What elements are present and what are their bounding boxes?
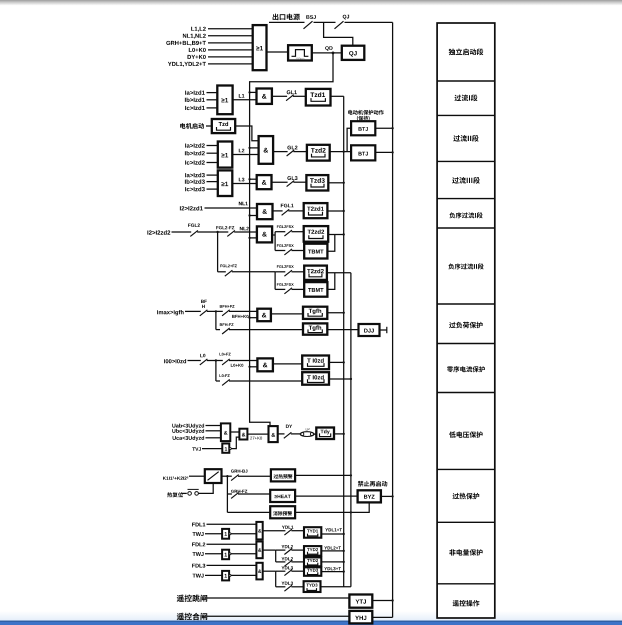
relay YHJ (349, 611, 372, 624)
contact FGL2-FZ (227, 230, 235, 236)
relay YTJ (349, 595, 372, 608)
push button reset (182, 492, 187, 494)
wire BSJ-QJ junction to QJ relay top (324, 22, 353, 45)
AND gate (256, 542, 262, 559)
OR gate U4 box (218, 142, 233, 168)
legend label 负序过流II段 (448, 263, 483, 269)
wire L3 net (232, 183, 256, 185)
wire remote trip to YTJ (207, 597, 350, 599)
contact FGL2FSX third (284, 270, 292, 276)
legend label 零序电流保护 (447, 366, 485, 372)
wire top power rail (269, 21, 305, 23)
wire Tzd1 output to trip bus (331, 95, 344, 97)
wire TI0zd output to trip bus (329, 361, 344, 363)
wire to integrator (189, 475, 205, 477)
wire T2zd2 output to trip bus (328, 234, 344, 236)
wire TYD2b output to trip bus (321, 561, 343, 563)
legend label 过流I段 (455, 95, 478, 102)
wire U15 output / contact DY (278, 433, 285, 435)
input Imax>Igfh (157, 310, 183, 315)
wire U13 output up (231, 437, 239, 449)
time element T2zd2 (304, 226, 329, 242)
wire YHJ output to power bus bottom (372, 616, 392, 618)
wire lower branch / contact BFH-FZ (216, 329, 220, 331)
AND gate U11 (257, 358, 273, 371)
time element Tdy (316, 428, 334, 440)
element thermal alarm box (271, 469, 295, 481)
wire QD vertical drop (250, 53, 333, 426)
wire to Tdy (314, 433, 316, 435)
time element T2zd1 (304, 203, 328, 218)
wire alarm output to hold bus (295, 474, 351, 476)
wire QD stub to U10 (248, 317, 250, 319)
coil symbol oval (300, 432, 314, 437)
NOT gate (222, 550, 229, 560)
wire Tgfh output to trip bus (327, 312, 343, 314)
time element T2zd2 second (304, 266, 327, 280)
label 遥控合闸 remote close (177, 613, 208, 620)
input I00>I0zd (164, 359, 186, 363)
AND gate U5 (259, 136, 274, 164)
time element Tzd2 (307, 145, 330, 161)
wire lower branch / contact FGL2+FZ (218, 271, 226, 273)
AND gate U14 (239, 429, 247, 440)
time element Tzd3 (306, 175, 328, 190)
AND gate U9 (257, 226, 272, 242)
node FGL2 branch (215, 231, 229, 233)
wire with contact L0 (188, 360, 201, 362)
wire BTJ1 left stub (347, 128, 351, 151)
OR gate U2 box (217, 86, 232, 115)
wire U8 output / contact FGL1 (273, 210, 283, 212)
wire U7 output / contact GL3 (272, 181, 288, 183)
relay BTJ2 hold (351, 145, 375, 160)
legend label 过负荷保护 (449, 322, 483, 328)
time element TI0zd upper (302, 356, 329, 370)
wire U3 output / contact GL1 (272, 95, 287, 97)
contact YDL3 upper (276, 570, 286, 572)
wire U5 output / contact GL2 (273, 151, 288, 153)
legend table frame (437, 23, 495, 618)
legend label 独立启动段 (449, 49, 484, 56)
time element TYD3 second (304, 581, 321, 592)
wire with contact BFH (185, 310, 201, 312)
time element TYD2 (304, 546, 321, 556)
wire NL2 net label (240, 227, 249, 231)
label 遥控跳闸 remote trip (177, 595, 208, 602)
wire T2zd1 output to trip bus (327, 210, 343, 212)
relay BTJ1 hold (351, 121, 375, 135)
time element Tgfh upper (303, 307, 327, 319)
wire thermal trip to BYZ (295, 495, 358, 497)
label 出口电源 (output power) (273, 14, 300, 21)
wire DJJ output terminal (380, 329, 387, 331)
wire Tzd to U5 top input (235, 126, 258, 141)
wire NL1 net label (239, 202, 248, 205)
wire TYD2 output YDL2+T to trip bus (321, 550, 343, 552)
input FDL1 (192, 523, 205, 527)
wire TYD3 output YDL3+T to trip bus (321, 571, 343, 573)
legend label 过热保护 (453, 493, 480, 499)
OR gate U1 start logic inputs (191, 27, 206, 32)
wire TYD3b output to riser (321, 586, 351, 588)
wire remote close to YHJ (207, 615, 350, 617)
time element Tgfh lower (303, 323, 327, 334)
contact FGL2FSX upper (275, 231, 285, 233)
label 热复位 reset (167, 492, 183, 497)
relay DJJ alarm (359, 324, 380, 336)
input TWJ (193, 552, 204, 556)
wire row2 / contact GRH-FZ (227, 493, 232, 495)
wire L2 net (232, 154, 258, 156)
AND gate (256, 563, 262, 580)
contact YDL2 lower (276, 561, 286, 563)
wire row3 to restart box (227, 511, 270, 513)
wire Tdy output to trip bus (334, 433, 344, 435)
wire TYD1 output YDL1+T to trip bus (321, 533, 343, 535)
wire Tgfh2 output to DJJ (327, 329, 358, 331)
AND gate U15 (269, 426, 278, 442)
label 电动机保护动作(保持) (348, 110, 384, 115)
contact L0+FZ (222, 359, 230, 365)
contact BFH+FZ (222, 310, 230, 316)
wire QD stub to U5 (248, 147, 250, 149)
contact YDL2 upper (276, 549, 286, 551)
wire with contact FGL2 (172, 231, 192, 233)
node branch lower group (274, 272, 276, 290)
AND gate U10 (257, 309, 271, 322)
time element TYD2 second (304, 557, 321, 566)
wire L1 net (233, 99, 257, 101)
wire FDL3 output node (263, 570, 276, 572)
element restart threshold box (270, 506, 295, 518)
wire TBMT output tie up (327, 235, 334, 252)
contact GRH-BJ (231, 475, 239, 481)
pulse element Tzd motor-start (212, 119, 235, 133)
element thermal trip box (270, 490, 295, 502)
AND gate U3 (257, 89, 272, 104)
relay BYZ restart-inhibit (358, 490, 381, 502)
wire U1 output (267, 51, 289, 53)
wire U11 output (273, 363, 302, 365)
AND gate U7 (257, 175, 272, 189)
legend label 过流II段 (453, 135, 478, 142)
wire QD stub to U8 (248, 214, 250, 216)
wire BTJ1 output to power bus (375, 127, 392, 129)
NOT gate (222, 571, 229, 581)
OR gate U1 box (253, 25, 267, 70)
wire BYZ output to power bus (381, 495, 393, 497)
label L0+K0 (231, 364, 244, 367)
relay TBMT upper (304, 244, 327, 259)
time element Tzd1 (306, 89, 331, 106)
NOT gate U13 (222, 444, 229, 453)
contact YDL3 lower (276, 586, 286, 588)
wire lower branch / contact L0-FZ (216, 380, 220, 382)
input TWJ (193, 532, 204, 536)
wire integrator output node (222, 475, 232, 477)
OR gate U6 box (218, 170, 233, 196)
legend label 负序过流I段 (449, 212, 482, 218)
wire T2zd2b output to alarm bus (327, 272, 351, 274)
wire QD stub to U11 (248, 366, 250, 368)
wire U10 output (271, 313, 303, 315)
relay QJ (342, 46, 365, 60)
wire QD stub to U9 (248, 237, 250, 239)
input TVJ (192, 447, 201, 450)
wire QD stub to U7 (248, 178, 250, 180)
wire button to integrator (199, 483, 214, 493)
wire pulse to QJ relay (312, 52, 342, 54)
wire FDL2 output node (263, 549, 276, 551)
contact FGL2FSX lower (275, 250, 285, 252)
AND gate U12 voltage (221, 423, 230, 441)
wire U9 output branch node (272, 234, 275, 236)
legend label 过流III段 (452, 177, 480, 184)
input thermal formula (163, 477, 188, 480)
wire Tzd2 output to BTJ2 (330, 151, 351, 153)
label 27+K0 (250, 437, 262, 440)
time element TYD1 (304, 527, 321, 538)
label 禁止再启动 (358, 481, 388, 487)
OR gate U2 stage I inputs (185, 90, 205, 94)
contact BSJ (304, 21, 313, 29)
legend label 遥控操作 (453, 600, 480, 606)
legend table row separators (437, 80, 495, 82)
undervoltage inputs (172, 424, 204, 429)
time element TI0zd lower (302, 372, 329, 385)
wire TBMT2 output tie up (327, 273, 334, 290)
OR gate U4 stage II inputs (185, 143, 205, 147)
node BFH branch (215, 310, 217, 312)
trip bus vertical (343, 96, 345, 587)
wire QD stub to U3 (248, 91, 250, 93)
wire restart box output to BYZ bottom (295, 502, 369, 512)
time element TYD3 (304, 567, 321, 576)
input I2>I2zd2 (147, 230, 170, 234)
relay TBMT lower (304, 282, 327, 297)
AND gate (256, 522, 262, 540)
wire U14 output (247, 433, 268, 435)
legend label 低电压保护 (449, 431, 483, 437)
node L0 branch (215, 359, 217, 361)
wire BTJ2 output to power bus (375, 151, 392, 153)
contact QJ (335, 21, 344, 29)
input I2>I2zd1 (180, 206, 203, 210)
AND gate U8 (257, 204, 273, 219)
wire Tzd3 output to trip bus (328, 182, 343, 184)
wire TI0zd2 output to alarm bus (329, 378, 351, 380)
power bus right vertical (392, 22, 394, 617)
pulse element 100ms (288, 45, 312, 60)
alarm bus vertical (350, 273, 352, 587)
wire U12 to U14 (230, 431, 239, 433)
label BFH+K0 (232, 315, 248, 318)
input FDL3 (192, 564, 205, 568)
node QD (332, 52, 335, 55)
wire YTJ output to power bus (372, 600, 392, 602)
integrator element (205, 469, 222, 483)
wire FDL1 output / contact YDL1 (263, 530, 286, 532)
NOT gate (222, 529, 229, 539)
input FDL2 (192, 543, 205, 547)
input TWJ (193, 574, 204, 578)
label 电机启动 motor start (180, 123, 204, 129)
OR gate U6 stage III inputs (185, 173, 205, 177)
contact FGL2FSX fourth (275, 288, 285, 290)
legend label 非电量保护 (449, 549, 482, 555)
